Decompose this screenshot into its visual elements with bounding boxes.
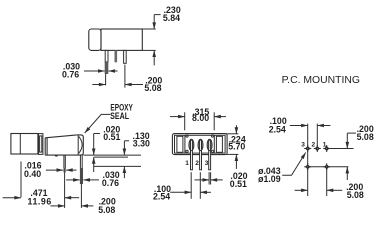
svg-text:0.76: 0.76 [62, 70, 79, 80]
svg-text:0.76: 0.76 [102, 178, 119, 188]
terminal 2 [198, 139, 203, 170]
svg-text:2.54: 2.54 [269, 124, 286, 134]
svg-text:3.30: 3.30 [133, 138, 150, 148]
hole numbers [301, 142, 327, 149]
svg-text:2: 2 [195, 160, 199, 167]
dimension .230/5.84 [142, 5, 181, 65]
dimension .016/0.40 (pin A width) [24, 161, 77, 179]
svg-text:1: 1 [185, 160, 189, 167]
svg-text:11.96: 11.96 [28, 197, 52, 207]
switch body (side view) [45, 135, 83, 155]
svg-text:5.08: 5.08 [357, 132, 374, 142]
actuator block [11, 134, 38, 155]
seal plane lines [83, 155, 141, 166]
pin A (thin) [64, 155, 66, 208]
extension lines [308, 124, 354, 196]
svg-text:8.00: 8.00 [192, 113, 209, 123]
svg-text:2: 2 [312, 142, 316, 149]
mount hole below 1 [323, 166, 330, 168]
epoxy seal dome [79, 136, 82, 153]
dimension .200/5.08 (pin span) [92, 75, 162, 93]
svg-text:2.54: 2.54 [153, 191, 170, 201]
svg-text:3: 3 [301, 142, 305, 149]
pin 3 (right) [124, 50, 127, 87]
dimension .200/5.08 (hole span lower) [295, 182, 364, 200]
switch body (front view) [172, 134, 227, 155]
dimension .100/2.54 (hole pitch) [269, 116, 331, 134]
svg-text:5.70: 5.70 [228, 142, 245, 152]
svg-text:5.08: 5.08 [98, 205, 115, 215]
hole diameter label [258, 153, 306, 184]
rivets [186, 135, 214, 153]
dimension .130/3.30 (standoff) [124, 131, 150, 178]
svg-text:5.08: 5.08 [347, 190, 364, 200]
svg-text:SEAL: SEAL [110, 111, 130, 121]
dimension .030/0.76 [62, 62, 118, 80]
dimension .020/0.51 (seal thickness) [94, 124, 121, 172]
terminal 3 [207, 139, 212, 170]
svg-text:0.40: 0.40 [24, 169, 41, 179]
switch body (top view) [89, 29, 143, 50]
dimension .224/5.70 [226, 125, 246, 169]
dimension .471/11.96 (overall) [3, 162, 80, 207]
hole 1 [323, 148, 330, 150]
svg-text:5.08: 5.08 [144, 83, 161, 93]
pin 1 (left, with bent tip) [105, 50, 109, 85]
svg-text:5.84: 5.84 [163, 13, 180, 23]
mount hole below 3 [304, 166, 311, 168]
dimension .030/0.76 (pin B width) [66, 170, 120, 188]
hole 2 [314, 148, 321, 150]
locating bump [55, 155, 57, 156]
pin B (thick) [80, 155, 83, 208]
svg-text:P.C. MOUNTING: P.C. MOUNTING [282, 75, 360, 86]
bushing [39, 134, 43, 155]
svg-text:3: 3 [205, 160, 209, 167]
svg-text:0.51: 0.51 [230, 179, 247, 189]
EPOXY SEAL label + leader [85, 102, 133, 133]
svg-text:1: 1 [323, 142, 327, 149]
dimension .315/8.00 [170, 107, 226, 130]
dimension .200/5.08 (row spacing upper) [347, 124, 374, 180]
dimension .020/0.51 (terminal thickness) [195, 171, 248, 189]
terminal 1 [189, 139, 194, 170]
hole 3 [304, 148, 311, 150]
svg-text:ø1.09: ø1.09 [258, 174, 281, 184]
pin 2 (middle, filled) [115, 50, 118, 62]
terminal numbers [185, 160, 208, 167]
svg-text:0.51: 0.51 [103, 132, 120, 142]
dimension .200/5.08 (pin spacing, side view) [50, 197, 115, 215]
dimension .100/2.54 (pin pitch) [153, 172, 211, 201]
